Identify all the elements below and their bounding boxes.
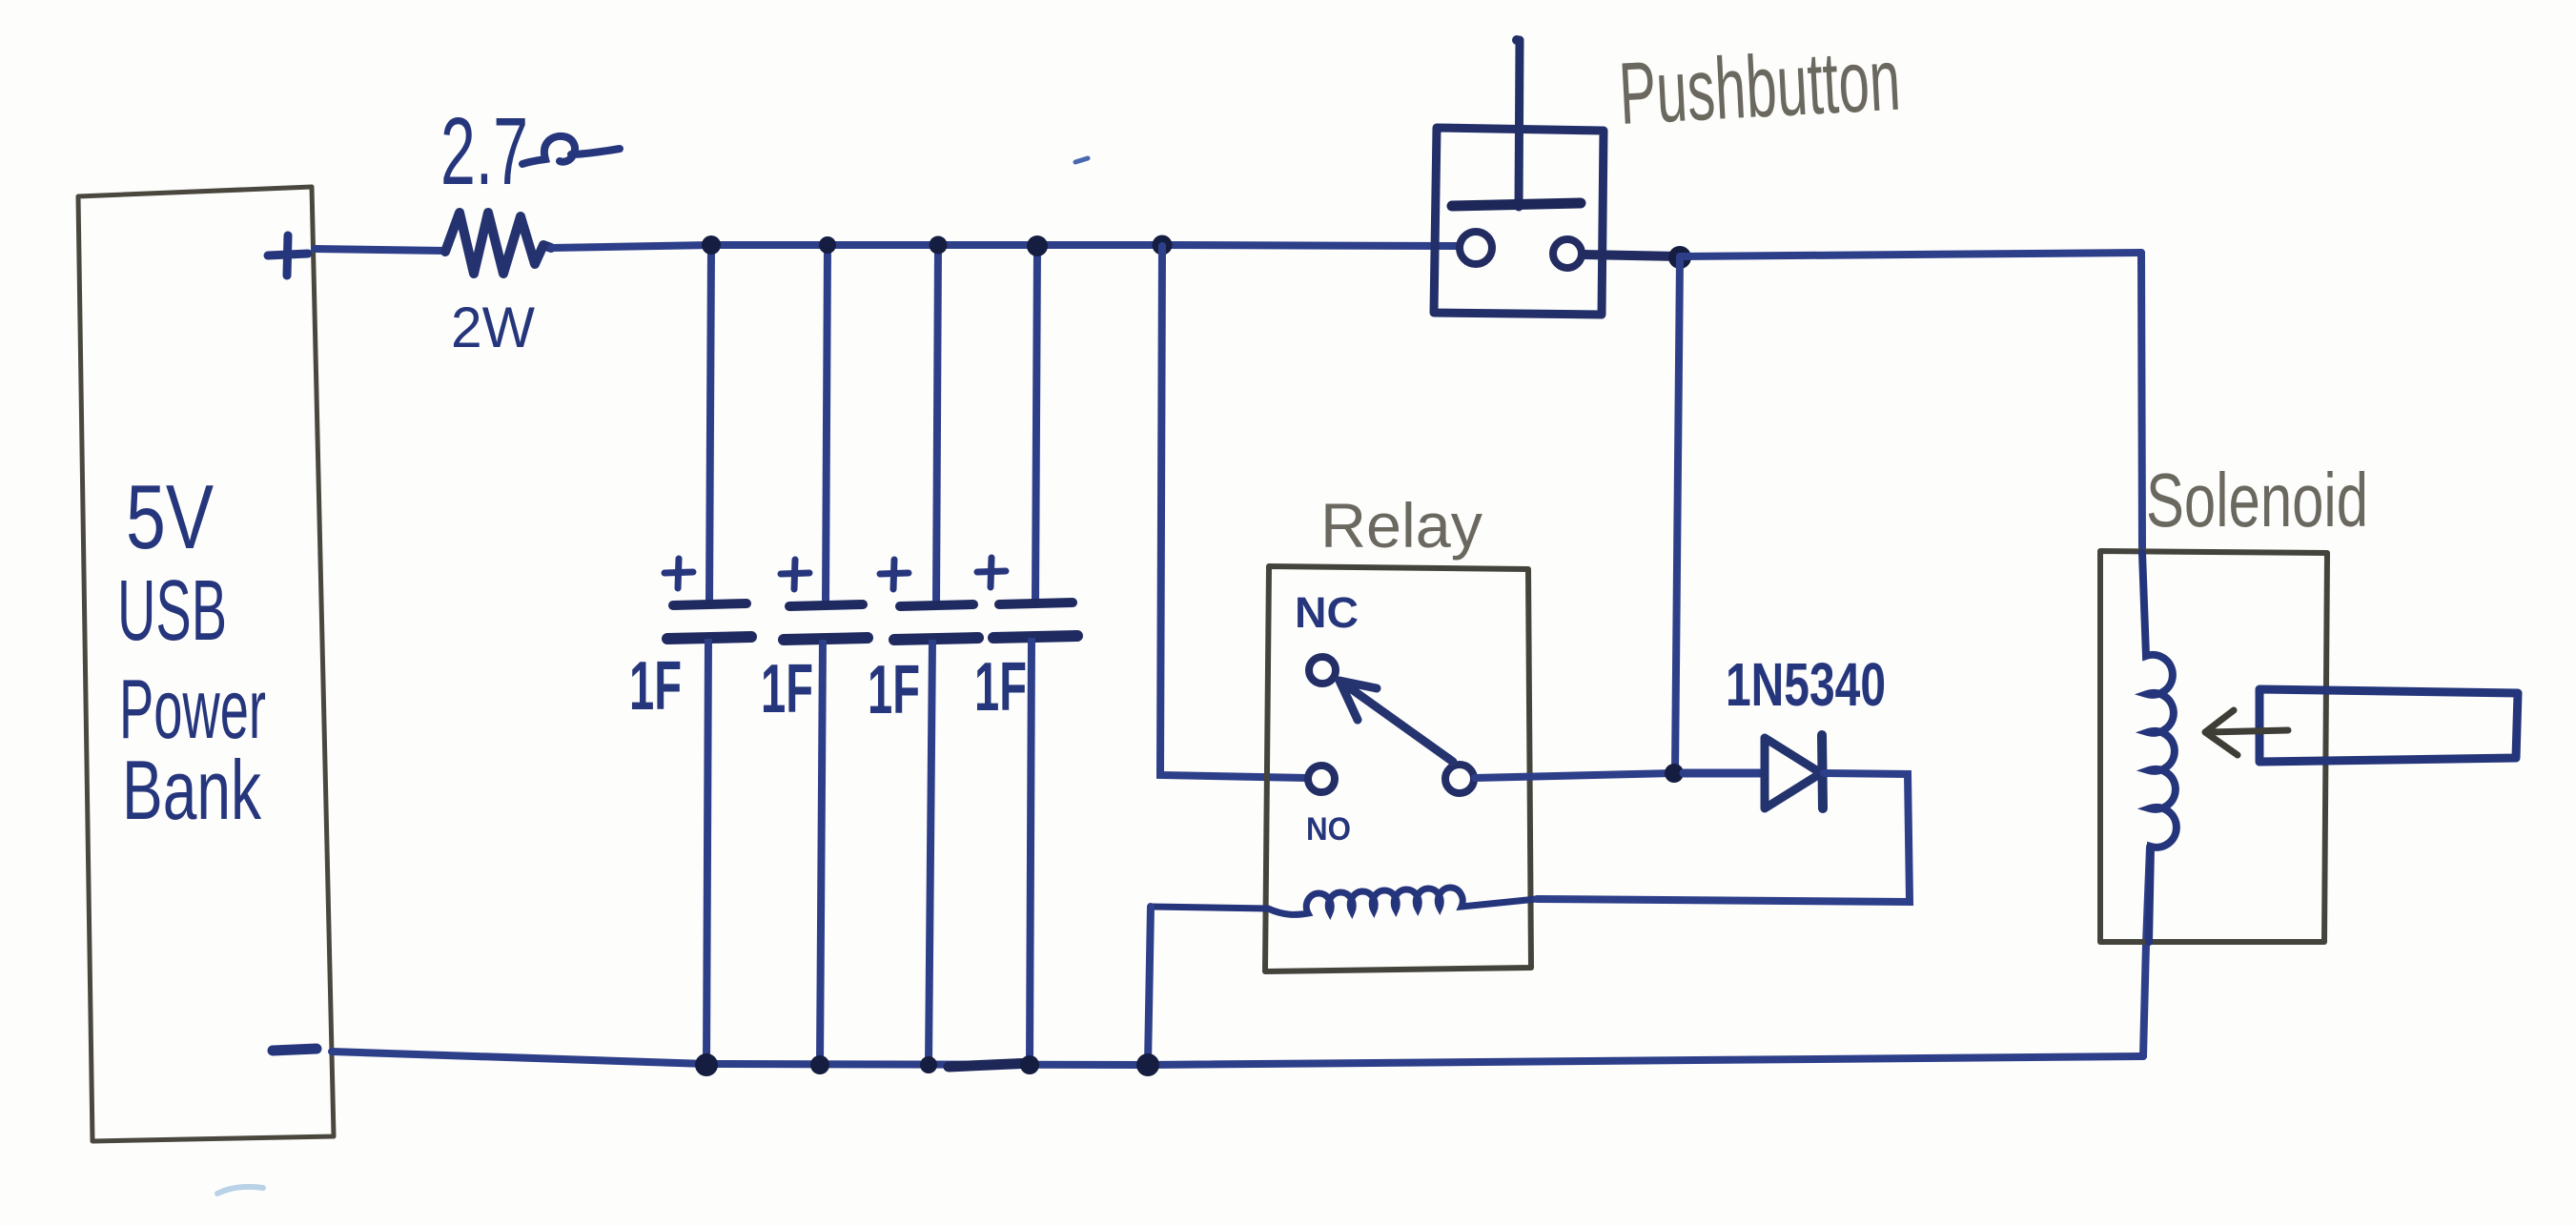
capacitor C3 polarity plus <box>880 560 909 589</box>
svg-text:Relay: Relay <box>1320 490 1482 561</box>
bottom bus double-stroke segment <box>949 1063 1032 1067</box>
wire from pushbutton junction down to diode node <box>1675 257 1680 773</box>
svg-text:1N5340: 1N5340 <box>1726 650 1886 719</box>
top bus wire from pushbutton junction to solenoid <box>1680 253 2141 256</box>
junction dot bottom bus C1 <box>695 1053 718 1076</box>
solenoid plunger rectangle <box>2259 689 2518 762</box>
wire from pushbutton right contact to junction <box>1583 255 1680 256</box>
capacitor C3 top plate <box>900 604 973 606</box>
capacitor C4 bottom lead <box>1030 638 1032 1064</box>
pushbutton SW1 stem top dot <box>1512 35 1522 45</box>
minus terminal of power bank <box>273 1049 317 1051</box>
capacitor C4 top lead <box>1035 246 1037 603</box>
relay coil <box>1151 888 1537 914</box>
junction dot top bus C4 <box>1027 235 1048 256</box>
capacitor C3 bottom lead <box>929 640 932 1064</box>
svg-text:NC: NC <box>1295 588 1359 637</box>
pushbutton SW1 body box <box>1434 128 1604 315</box>
wire relay coil left down to bottom bus <box>1148 907 1151 1064</box>
svg-text:1F: 1F <box>761 651 813 727</box>
wire diode anode lead <box>1684 769 1765 778</box>
junction dot top bus C2 <box>819 236 836 254</box>
junction dot diode node <box>1665 764 1684 783</box>
diode D1 cathode bar <box>1822 735 1823 808</box>
diode D1 triangle <box>1765 738 1821 808</box>
resistor R1 2.7ohm zigzag <box>445 213 551 274</box>
svg-text:1F: 1F <box>974 649 1027 725</box>
pushbutton SW1 stem <box>1519 40 1520 207</box>
svg-text:Pushbutton: Pushbutton <box>1617 31 1903 143</box>
capacitor C3 bottom plate <box>894 638 978 640</box>
capacitor C1 top plate <box>673 603 746 605</box>
junction dot bottom bus C4 <box>1020 1055 1039 1074</box>
junction dot pushbutton output <box>1668 246 1691 269</box>
wire bottom bus up into solenoid <box>2143 847 2150 1056</box>
capacitor C3 top lead <box>936 245 938 603</box>
junction dot bottom bus C2 <box>810 1055 829 1074</box>
pushbutton SW1 right contact circle <box>1553 239 1582 268</box>
relay NO contact circle <box>1308 766 1335 792</box>
capacitor C4 top plate <box>999 603 1073 604</box>
svg-text:1F: 1F <box>629 648 682 725</box>
wire from top bus down to relay NO contact <box>1160 246 1307 778</box>
junction dot top bus C1 <box>702 235 721 255</box>
capacitor C2 top plate <box>789 604 863 606</box>
junction dot top bus relay feed <box>1153 235 1173 255</box>
power bank box B1 <box>78 187 334 1141</box>
capacitor C1 top lead <box>709 245 711 603</box>
relay common contact circle <box>1445 765 1474 793</box>
wire relay common to diode node <box>1475 773 1674 778</box>
wire from + terminal to resistor <box>315 249 445 251</box>
wire diode cathode to relay coil right <box>1537 773 1910 902</box>
stray pen smudge bottom left <box>217 1187 263 1194</box>
relay K1 body box <box>1265 566 1531 971</box>
svg-text:1F: 1F <box>868 652 920 728</box>
capacitor C1 bottom plate <box>667 637 751 639</box>
capacitor C2 bottom plate <box>784 638 868 640</box>
junction dot bottom bus relay coil <box>1136 1053 1159 1076</box>
capacitor C4 bottom plate <box>993 636 1077 638</box>
svg-text:2.7: 2.7 <box>440 98 528 205</box>
wire down from top bus into solenoid <box>2141 253 2142 553</box>
top bus wire from resistor to pushbutton <box>551 245 1460 248</box>
svg-text:USB: USB <box>117 563 227 659</box>
junction dot bottom bus C3 <box>920 1056 937 1073</box>
pushbutton SW1 actuator bar <box>1452 203 1581 206</box>
value label ohm squiggle <box>522 136 620 164</box>
junction dot top bus C3 <box>930 236 948 255</box>
svg-text:5V: 5V <box>126 466 214 568</box>
solenoid coil <box>2142 553 2177 942</box>
svg-text:NO: NO <box>1306 811 1351 848</box>
solenoid plunger arrow <box>2205 710 2288 755</box>
svg-text:Solenoid: Solenoid <box>2146 458 2368 542</box>
relay NC contact circle <box>1309 657 1336 684</box>
bottom bus wire <box>332 1052 2143 1065</box>
solenoid body box <box>2100 551 2327 942</box>
plus terminal of power bank <box>268 235 308 276</box>
stray pen tick near top bus <box>1075 158 1088 162</box>
capacitor C2 bottom lead <box>820 640 823 1064</box>
relay armature arrow <box>1339 681 1453 762</box>
capacitor C2 polarity plus <box>781 560 809 589</box>
capacitor C1 bottom lead <box>706 639 708 1064</box>
capacitor C1 polarity plus <box>664 559 693 588</box>
svg-text:Bank: Bank <box>122 743 262 837</box>
capacitor C2 top lead <box>826 245 828 603</box>
pushbutton SW1 left contact circle <box>1460 232 1492 264</box>
svg-text:2W: 2W <box>451 296 535 359</box>
capacitor C4 polarity plus <box>977 558 1006 587</box>
